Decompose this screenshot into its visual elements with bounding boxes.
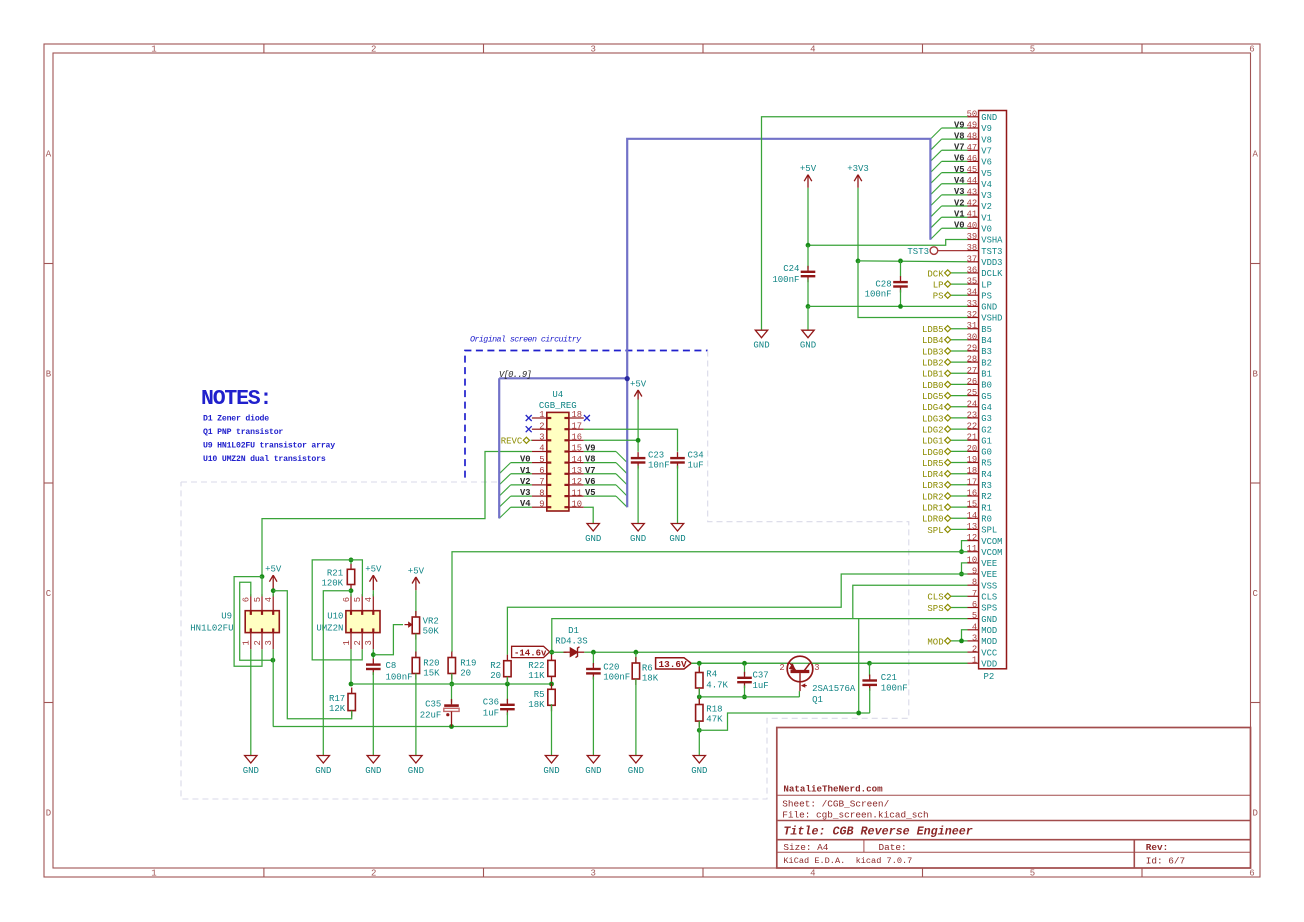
svg-text:50: 50 — [967, 109, 978, 119]
junction MOD — [959, 639, 964, 644]
power +5V U10 — [372, 575, 374, 590]
title block — [777, 728, 1251, 869]
svg-text:GND: GND — [315, 766, 331, 776]
svg-text:D1 Zener diode: D1 Zener diode — [203, 414, 269, 424]
svg-text:3: 3 — [364, 640, 374, 645]
ground C20 — [587, 756, 599, 764]
svg-text:36: 36 — [967, 265, 978, 275]
svg-text:8: 8 — [539, 488, 544, 498]
svg-text:Q1 PNP transistor: Q1 PNP transistor — [203, 427, 283, 437]
junction C28 GND — [898, 304, 903, 309]
resistor R5 — [551, 683, 553, 689]
svg-text:15: 15 — [572, 444, 583, 454]
power +5V VR2 — [415, 577, 417, 590]
P2 pin 19 (R5) — [968, 462, 979, 464]
P2 pin 39 (VSHA) — [968, 239, 979, 241]
svg-text:MOD: MOD — [981, 626, 997, 636]
svg-text:PS: PS — [981, 291, 992, 301]
U4 pin 17 — [569, 428, 584, 430]
hier label LDR1 wire — [951, 506, 968, 508]
svg-text:VSHD: VSHD — [981, 314, 1002, 324]
resistor R20 — [415, 652, 417, 658]
svg-text:R5: R5 — [534, 690, 545, 700]
svg-text:18: 18 — [572, 410, 583, 420]
wire VCC run — [593, 651, 967, 653]
U10 pin 4 — [372, 594, 374, 611]
junction C37 bottom — [742, 695, 747, 700]
wire U9 pin6 loop — [240, 582, 273, 660]
svg-text:16: 16 — [572, 433, 583, 443]
junction C24 GND — [806, 304, 811, 309]
P2 pin 10 (VEE) — [968, 562, 979, 564]
U4 pin 7 — [532, 484, 547, 486]
svg-text:2: 2 — [353, 640, 363, 645]
hier label REVC wire — [531, 439, 532, 441]
P2 pin 34 (PS) — [968, 294, 979, 296]
wire MOD pin3 — [951, 640, 968, 642]
hier label DCK — [945, 270, 951, 276]
ground R5 — [545, 756, 557, 764]
net label V5 right + bus entry — [584, 495, 616, 497]
svg-text:Q1: Q1 — [812, 695, 823, 705]
diode D1 RD4.3S — [564, 651, 571, 653]
hier label LDB0 — [945, 381, 951, 387]
svg-text:1uF: 1uF — [753, 681, 769, 691]
wire +5V to VR2 — [415, 590, 417, 617]
svg-text:GND: GND — [753, 341, 769, 351]
bus V[0..9] right — [627, 139, 930, 378]
P2 pin 26 (B0) — [968, 383, 979, 385]
svg-text:G2: G2 — [981, 425, 992, 435]
svg-text:V1: V1 — [981, 213, 992, 223]
hier label SPS wire — [951, 607, 968, 609]
P2 pin 8 (VSS) — [968, 584, 979, 586]
svg-text:C37: C37 — [753, 671, 769, 681]
svg-text:2: 2 — [253, 640, 263, 645]
P2 pin 27 (B1) — [968, 372, 979, 374]
wire U9 pin3 down — [272, 649, 274, 726]
svg-text:+5V: +5V — [800, 164, 817, 174]
global label 13.6V — [656, 658, 692, 669]
junction R2 bottom — [505, 682, 510, 687]
U9 pin 3 — [272, 633, 274, 650]
svg-text:C21: C21 — [881, 673, 897, 683]
P2 pin 15 (R1) — [968, 506, 979, 508]
svg-text:Rev:: Rev: — [1146, 842, 1169, 853]
P2 pin 21 (G1) — [968, 439, 979, 441]
svg-text:120K: 120K — [321, 579, 343, 589]
junction C21 top — [867, 661, 872, 666]
svg-text:LDG2: LDG2 — [922, 426, 944, 436]
svg-text:GND: GND — [630, 534, 646, 544]
U4 pin 10 — [569, 506, 584, 508]
svg-text:SPS: SPS — [981, 604, 997, 614]
wire R19 top — [451, 651, 453, 653]
svg-text:LDR3: LDR3 — [922, 481, 944, 491]
junction C37 top — [742, 661, 747, 666]
svg-text:G1: G1 — [981, 436, 992, 446]
capacitor C8 — [372, 659, 374, 665]
wire +5V to C24 — [807, 245, 809, 269]
svg-text:17: 17 — [572, 421, 583, 431]
P2 pin 25 (G5) — [968, 395, 979, 397]
junction U9 pin5 top — [260, 574, 265, 579]
svg-text:4: 4 — [539, 444, 544, 454]
svg-text:V9: V9 — [954, 120, 965, 130]
U10 pin 2 — [361, 633, 363, 650]
ground C34 — [671, 524, 683, 532]
svg-text:SPL: SPL — [981, 526, 997, 536]
svg-text:+5V: +5V — [365, 565, 382, 575]
svg-text:44: 44 — [967, 176, 978, 186]
svg-text:RD4.3S: RD4.3S — [555, 636, 587, 646]
svg-text:LDB5: LDB5 — [922, 325, 944, 335]
svg-text:P2: P2 — [984, 672, 995, 682]
svg-text:18K: 18K — [528, 700, 545, 710]
wire R4 to R18 — [698, 688, 700, 705]
ground C8 — [367, 756, 379, 764]
svg-text:C34: C34 — [688, 451, 704, 461]
svg-text:GND: GND — [800, 341, 816, 351]
svg-text:R1: R1 — [981, 503, 992, 513]
svg-text:G5: G5 — [981, 392, 992, 402]
svg-text:20: 20 — [967, 444, 978, 454]
junction +5V/VSHA — [806, 243, 811, 248]
resistor R22 — [551, 654, 553, 660]
svg-text:25: 25 — [967, 388, 978, 398]
capacitor C36 — [506, 684, 508, 703]
svg-text:42: 42 — [967, 199, 978, 209]
svg-text:B0: B0 — [981, 381, 992, 391]
svg-text:6: 6 — [539, 466, 544, 476]
svg-text:R21: R21 — [327, 569, 343, 579]
wire R18 bottom — [698, 721, 700, 730]
svg-text:5: 5 — [1030, 45, 1035, 55]
svg-text:3: 3 — [814, 663, 819, 673]
svg-text:GND: GND — [628, 766, 644, 776]
svg-text:4: 4 — [810, 869, 815, 879]
svg-text:3: 3 — [590, 869, 595, 879]
P2 pin 32 (VSHD) — [968, 317, 979, 319]
svg-text:R2: R2 — [490, 661, 501, 671]
svg-text:R17: R17 — [329, 694, 345, 704]
hier label LDR2 wire — [951, 495, 968, 497]
svg-text:SPS: SPS — [927, 604, 943, 614]
svg-text:R4: R4 — [981, 470, 992, 480]
svg-text:LDB4: LDB4 — [922, 336, 944, 346]
lavender dashed section boxes — [181, 351, 909, 800]
resistor R4 — [698, 663, 700, 672]
svg-text:2: 2 — [779, 663, 784, 673]
svg-text:GND: GND — [981, 113, 997, 123]
capacitor C37 — [744, 663, 746, 674]
U4 pin 8 — [532, 495, 547, 497]
svg-text:GND: GND — [585, 534, 601, 544]
svg-text:LDB2: LDB2 — [922, 359, 944, 369]
hier label LDG3 wire — [951, 417, 968, 419]
svg-text:VDD3: VDD3 — [981, 258, 1002, 268]
wire +3V3 to VSHD — [858, 261, 968, 318]
svg-text:B1: B1 — [981, 370, 992, 380]
capacitor C34 — [677, 452, 679, 458]
wire Q1 base down — [798, 691, 800, 697]
svg-text:V5: V5 — [585, 488, 596, 498]
wire C37 bottom — [744, 685, 746, 697]
svg-text:R22: R22 — [528, 661, 544, 671]
svg-text:V8: V8 — [981, 135, 992, 145]
wire VEE pin10 step — [962, 563, 968, 574]
svg-text:15K: 15K — [423, 669, 440, 679]
junction U10 pin1 rail — [349, 682, 354, 687]
U10 pin 5 — [361, 594, 363, 611]
wire R19 bottom — [451, 674, 453, 685]
P2 pin 43 (V3) — [968, 194, 979, 196]
svg-text:MOD: MOD — [981, 637, 997, 647]
wire U9 pin1 gnd — [250, 649, 252, 755]
P2 pin 11 (VCOM) — [968, 551, 979, 553]
svg-text:37: 37 — [967, 254, 978, 264]
P2 pin 13 (SPL) — [968, 528, 979, 530]
hier label LDB4 wire — [951, 339, 968, 341]
wire VCOM pin12 step — [962, 541, 968, 552]
svg-text:R2: R2 — [981, 492, 992, 502]
svg-text:27: 27 — [967, 366, 978, 376]
wire R20 gnd — [415, 674, 417, 756]
no-connect U4 pin2 — [526, 426, 532, 432]
U4 pin 15 — [569, 451, 584, 453]
capacitor C21 — [869, 663, 871, 676]
wire U4 pin4 to U9 — [262, 452, 532, 577]
U10 pin 1 — [350, 633, 352, 650]
svg-text:VCOM: VCOM — [981, 537, 1002, 547]
svg-text:VCC: VCC — [981, 648, 997, 658]
svg-text:V1: V1 — [520, 466, 531, 476]
svg-text:29: 29 — [967, 344, 978, 354]
svg-text:30: 30 — [967, 332, 978, 342]
svg-text:NOTES:: NOTES: — [201, 387, 271, 411]
svg-text:C: C — [46, 589, 52, 599]
wire GND drop to bottom rail — [858, 619, 860, 713]
svg-text:20: 20 — [490, 671, 501, 681]
svg-text:V3: V3 — [520, 488, 531, 498]
svg-text:DCLK: DCLK — [981, 269, 1003, 279]
P2 pin 49 (V9) — [968, 127, 979, 129]
P2 pin 50 (GND) — [968, 116, 979, 118]
svg-text:8: 8 — [972, 578, 977, 588]
svg-text:Title: CGB Reverse Engineer: Title: CGB Reverse Engineer — [783, 825, 972, 839]
junction VCOM — [959, 549, 964, 554]
no-connect U4 pin1 — [526, 415, 532, 421]
net label V0 + bus entry — [942, 227, 968, 229]
P2 pin 48 (V8) — [968, 138, 979, 140]
svg-text:VDD: VDD — [981, 659, 997, 669]
svg-text:B: B — [1252, 369, 1258, 379]
svg-text:5: 5 — [1030, 869, 1035, 879]
svg-text:5: 5 — [253, 597, 263, 602]
hier label LDG1 — [945, 437, 951, 443]
hier label LDR0 — [945, 515, 951, 521]
svg-text:+5V: +5V — [265, 565, 282, 575]
svg-text:2: 2 — [539, 421, 544, 431]
power +5V U4 — [637, 390, 639, 400]
net label V4 + bus entry — [511, 506, 532, 508]
svg-text:U10: U10 — [327, 612, 343, 622]
svg-text:V[0..9]: V[0..9] — [499, 370, 531, 380]
hier label LDB3 — [945, 348, 951, 354]
blue dashed box: original screen circuitry — [465, 351, 708, 478]
svg-text:1: 1 — [242, 640, 252, 645]
svg-text:40: 40 — [967, 221, 978, 231]
P2 pin 45 (V5) — [968, 172, 979, 174]
svg-text:28: 28 — [967, 355, 978, 365]
wire MOD pin4 step — [962, 630, 968, 641]
resistor R21 — [350, 563, 352, 569]
U4 pin 14 — [569, 462, 584, 464]
wire R17 bottom to +5V — [273, 591, 352, 719]
svg-text:V0: V0 — [981, 225, 992, 235]
wire +3V3 down — [857, 188, 859, 261]
svg-text:V2: V2 — [981, 202, 992, 212]
hier label LDB1 wire — [951, 372, 968, 374]
svg-text:C: C — [1252, 589, 1258, 599]
wire rail 726 — [273, 726, 508, 728]
wire 13.6V run — [691, 662, 787, 664]
svg-text:LDB1: LDB1 — [922, 370, 944, 380]
svg-text:R19: R19 — [460, 659, 476, 669]
svg-text:13: 13 — [967, 522, 978, 532]
hier label LDR3 — [945, 482, 951, 488]
svg-text:35: 35 — [967, 277, 978, 287]
svg-text:100nF: 100nF — [603, 672, 630, 682]
svg-text:9: 9 — [539, 499, 544, 509]
P2 pin 30 (B4) — [968, 339, 979, 341]
svg-text:KiCad E.D.A. kicad 7.0.7: KiCad E.D.A. kicad 7.0.7 — [783, 856, 912, 866]
U9 pin 2 — [261, 633, 263, 650]
svg-text:100nF: 100nF — [881, 684, 908, 694]
capacitor C23 — [637, 452, 639, 458]
svg-text:GND: GND — [691, 766, 707, 776]
svg-text:R4: R4 — [706, 670, 717, 680]
svg-text:46: 46 — [967, 154, 978, 164]
resistor R2 — [506, 655, 508, 661]
svg-text:TST3: TST3 — [981, 247, 1002, 257]
hier label LDR1 — [945, 504, 951, 510]
svg-text:LDR1: LDR1 — [922, 504, 944, 514]
svg-text:C35: C35 — [425, 700, 441, 710]
net label V2 + bus entry — [511, 484, 532, 486]
ground R20 — [410, 756, 422, 764]
svg-text:V8: V8 — [954, 131, 965, 141]
hier label LDG3 — [945, 415, 951, 421]
hier label LDG0 — [945, 448, 951, 454]
U4 pin 9 — [532, 506, 547, 508]
svg-text:50K: 50K — [423, 627, 440, 637]
svg-text:22uF: 22uF — [420, 711, 442, 721]
svg-text:100nF: 100nF — [386, 673, 413, 683]
wire VDD cont — [870, 662, 968, 664]
svg-text:LP: LP — [933, 281, 944, 291]
hier label LDG0 wire — [951, 450, 968, 452]
svg-text:LDG3: LDG3 — [922, 414, 944, 424]
svg-text:VEE: VEE — [981, 559, 997, 569]
junction gnd rail — [856, 711, 861, 716]
svg-text:A: A — [1252, 150, 1258, 160]
wire VDD3 pin37 — [858, 260, 968, 263]
net label V3 + bus entry — [942, 194, 968, 196]
svg-text:File: cgb_screen.kicad_sch: File: cgb_screen.kicad_sch — [782, 809, 928, 820]
wire VEE run — [507, 574, 967, 655]
wire R21 bottom gap — [350, 591, 352, 597]
U9 pin 1 — [250, 633, 252, 650]
hier label LDG2 — [945, 426, 951, 432]
P2 pin 22 (G2) — [968, 428, 979, 430]
net label V1 + bus entry — [942, 216, 968, 218]
svg-text:C23: C23 — [648, 451, 664, 461]
svg-text:VEE: VEE — [981, 570, 997, 580]
svg-text:3: 3 — [590, 45, 595, 55]
wire R21 to pin5 — [351, 560, 362, 597]
hier label LDB5 — [945, 326, 951, 332]
svg-text:V3: V3 — [981, 191, 992, 201]
wire D1 to C20 — [584, 651, 593, 653]
P2 pin 24 (G4) — [968, 406, 979, 408]
U4 pin 12 — [569, 484, 584, 486]
svg-text:V9: V9 — [981, 124, 992, 134]
svg-text:UMZ2N: UMZ2N — [316, 624, 343, 634]
svg-text:B2: B2 — [981, 358, 992, 368]
svg-text:1uF: 1uF — [688, 461, 704, 471]
P2 pin 31 (B5) — [968, 328, 979, 330]
ground U10 pin6 net — [317, 756, 329, 764]
wire +5V to U10 pin4 — [372, 590, 374, 596]
svg-text:V6: V6 — [954, 154, 965, 164]
svg-text:GND: GND — [365, 766, 381, 776]
ground R18 — [693, 756, 705, 764]
svg-text:+5V: +5V — [630, 380, 647, 390]
svg-text:9: 9 — [972, 567, 977, 577]
P2 pin 37 (VDD3) — [968, 261, 979, 263]
IC U4 body — [547, 412, 569, 511]
svg-text:1: 1 — [151, 869, 156, 879]
svg-text:MOD: MOD — [927, 637, 943, 647]
svg-text:V9: V9 — [585, 444, 596, 454]
svg-text:15: 15 — [967, 500, 978, 510]
svg-text:LDR2: LDR2 — [922, 492, 944, 502]
net label V6 + bus entry — [942, 160, 968, 162]
hier label LDG5 — [945, 393, 951, 399]
wire U10 pin3 down — [372, 649, 374, 659]
wire R18 to gnd rail — [699, 713, 870, 730]
svg-text:21: 21 — [967, 433, 978, 443]
svg-text:10: 10 — [572, 499, 583, 509]
svg-text:13.6V: 13.6V — [659, 659, 688, 670]
wire U10 pin1 down — [350, 649, 352, 684]
svg-text:B5: B5 — [981, 325, 992, 335]
svg-text:38: 38 — [967, 243, 978, 253]
wire GND pin33 — [808, 305, 968, 307]
bus left vertical — [498, 378, 500, 518]
P2 pin 33 (GND) — [968, 305, 979, 307]
hier label LDG4 — [945, 404, 951, 410]
wire VSS run — [853, 585, 968, 618]
svg-text:47K: 47K — [706, 715, 723, 725]
IC U9 body — [245, 611, 279, 633]
svg-text:7: 7 — [539, 477, 544, 487]
svg-text:C28: C28 — [875, 280, 891, 290]
hier label LDG4 wire — [951, 406, 968, 408]
net label V1 + bus entry — [511, 473, 532, 475]
hier label LDB2 — [945, 359, 951, 365]
